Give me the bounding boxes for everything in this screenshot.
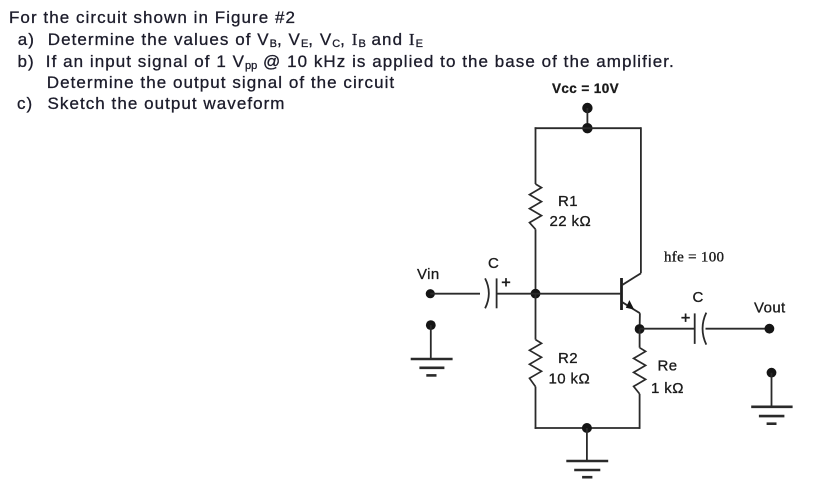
label 22 kOhm (550, 213, 592, 230)
svg-text:10 kΩ: 10 kΩ (549, 371, 591, 388)
label plus output (681, 314, 689, 322)
wire input capacitor to base node (497, 293, 536, 295)
resistor R2 (530, 340, 542, 387)
node Vout terminal dot (765, 324, 775, 334)
svg-text:22 kΩ: 22 kΩ (550, 213, 592, 230)
wire output capacitor to Vout (706, 328, 770, 330)
label Vin (417, 266, 440, 283)
wire right rail (collector feed) (640, 127, 642, 273)
resistor Re (634, 348, 646, 394)
problem statement text (9, 9, 296, 26)
label Vcc = 10V (552, 81, 619, 96)
svg-text:Re: Re (658, 358, 678, 375)
svg-text:Vin: Vin (417, 266, 440, 283)
wire Vcc stub (586, 108, 588, 128)
label R2 (558, 350, 578, 367)
svg-text:Vout: Vout (754, 300, 786, 317)
label 1 kOhm (651, 380, 684, 397)
wire emitter to Re (639, 329, 641, 348)
wire base wire (536, 293, 621, 295)
label C input (488, 255, 499, 272)
label R1 (558, 193, 578, 210)
svg-text:Vcc = 10V: Vcc = 10V (552, 81, 619, 96)
wire bottom rail (535, 427, 640, 429)
node base junction dot (531, 289, 541, 299)
svg-text:R2: R2 (558, 350, 578, 367)
svg-text:C: C (488, 255, 499, 272)
svg-text:R1: R1 (558, 193, 578, 210)
transistor Q1 (622, 273, 641, 329)
wire left rail to R1 (535, 127, 537, 184)
label C output (693, 289, 704, 306)
node Vcc terminal dot (582, 103, 592, 113)
svg-text:hfe = 100: hfe = 100 (664, 250, 724, 266)
label 10 kOhm (549, 371, 591, 388)
label Re (658, 358, 678, 375)
wire R2 to bottom rail (535, 387, 537, 429)
svg-text:1 kΩ: 1 kΩ (651, 380, 684, 397)
svg-text:C: C (693, 289, 704, 306)
label Vout (754, 300, 786, 317)
wire Re to bottom rail (639, 394, 641, 429)
label plus input (502, 278, 510, 286)
resistor R1 (530, 184, 542, 229)
wire base node to R2 (535, 294, 537, 340)
node Vin ground terminal dot (426, 320, 436, 330)
ground under Vout (751, 373, 792, 424)
wire Vin to input capacitor (430, 293, 480, 295)
ground under Vin (411, 325, 453, 375)
node emitter junction dot (635, 324, 645, 334)
label hfe = 100 (664, 250, 724, 266)
node Vcc rail junction dot (582, 123, 592, 133)
capacitor C output (695, 313, 707, 345)
node Vout ground terminal dot (767, 368, 777, 378)
wire emitter to output capacitor (640, 328, 695, 330)
node bottom ground junction dot (582, 423, 592, 433)
ground bottom center (566, 428, 608, 477)
wire top rail (535, 127, 641, 129)
capacitor C input (485, 278, 497, 308)
node Vin terminal dot (426, 289, 435, 298)
wire R1 to base node (535, 229, 537, 293)
